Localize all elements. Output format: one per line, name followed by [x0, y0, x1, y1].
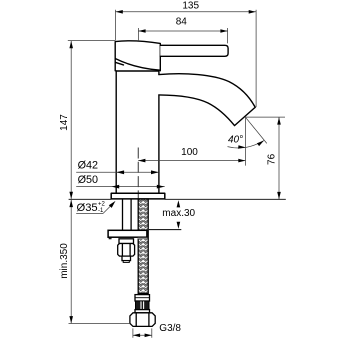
plate shadow band over hose [138, 238, 148, 240]
dim G3/8 line [133, 334, 152, 336]
svg-text:G3/8: G3/8 [159, 323, 181, 334]
svg-text:-1: -1 [98, 208, 104, 214]
arrow 135 left [116, 10, 123, 14]
clamp plate [108, 230, 147, 237]
svg-text:+2: +2 [98, 202, 106, 208]
arrow 40deg at leg [257, 141, 264, 147]
body barrel right wall lower [158, 95, 160, 193]
arrow O50 left [111, 185, 119, 189]
G3/8 hex nut [130, 313, 155, 327]
arrow O50 right [157, 185, 165, 189]
clamp plate lip [109, 237, 111, 239]
dim 84 right extension [227, 28, 229, 43]
centerline of body [137, 148, 139, 199]
svg-text:40°: 40° [228, 135, 243, 146]
svg-text:max.30: max.30 [162, 208, 195, 219]
stud tip [123, 261, 129, 263]
body barrel right wall upper [158, 71, 160, 75]
dim 135 right extension [255, 10, 257, 107]
dim Oslash35 leader [103, 203, 114, 214]
deck top line right [165, 198, 286, 200]
stud end [122, 256, 131, 261]
sub-deck parts [108, 199, 155, 326]
G3/8 nut facets [136, 313, 149, 326]
lever handle [160, 45, 228, 56]
arrow 100 left [138, 159, 145, 163]
40 deg arc [228, 141, 264, 148]
head small step line [115, 62, 123, 65]
svg-text:100: 100 [181, 147, 198, 158]
arrow 147 bottom [69, 192, 73, 199]
svg-text:135: 135 [182, 0, 199, 11]
arrow G38 left [133, 334, 140, 338]
arrow min350 top [69, 200, 73, 207]
deck top line left [69, 198, 112, 200]
deck / mounting surface [69, 199, 286, 229]
arrow 135 right [249, 10, 256, 14]
arrow min350 bottom [69, 316, 73, 323]
dim min.350 line [70, 200, 72, 323]
arrow max30 down [177, 222, 181, 229]
deck bottom line right [149, 229, 181, 231]
dim min.350 bottom extension [69, 323, 131, 325]
dim 135 left extension [114, 10, 116, 41]
body barrel left wall [115, 71, 117, 193]
dim 100 right extension [245, 117, 247, 165]
dim 84 line [138, 30, 227, 32]
dim 147 line [70, 41, 72, 199]
svg-text:147: 147 [59, 114, 70, 131]
hose lower band [135, 310, 150, 313]
hex nut facets [122, 244, 130, 256]
40 deg leg line [246, 117, 267, 143]
arrow O42 left [116, 170, 124, 174]
spout tip horizontal extension [246, 116, 286, 118]
washer [119, 239, 134, 244]
hose collar line [135, 297, 150, 299]
arrow max30 up [177, 200, 181, 207]
hex nut on stud [118, 244, 135, 257]
base flange [111, 193, 165, 199]
arrow 147 top [69, 41, 73, 48]
dim G3/8 ext lines [133, 328, 152, 337]
crimp white stripes [141, 301, 144, 309]
hose crimp section [136, 301, 150, 310]
dim Oslash42 line [76, 171, 159, 173]
dim 76 line [278, 117, 280, 199]
dim 84 left extension [137, 28, 139, 40]
arrow G38 right [145, 334, 152, 338]
svg-text:Ø50: Ø50 [78, 174, 98, 186]
arrow 76 bottom [277, 192, 281, 199]
head scoop curve [115, 59, 160, 71]
svg-text:76: 76 [266, 153, 277, 165]
svg-text:Ø35: Ø35 [77, 202, 98, 214]
arrow 100 right [238, 159, 245, 163]
dim 135 line [116, 11, 256, 13]
arrow 84 left [138, 29, 145, 33]
body barrel top joint [116, 70, 159, 72]
dim 147 top extension [68, 40, 115, 42]
dim 100 line [138, 160, 245, 162]
faucet head cap [115, 41, 160, 71]
arrow 40deg at vertical [238, 145, 245, 149]
svg-text:min.350: min.350 [59, 243, 70, 279]
arrow 84 right [220, 29, 227, 33]
arrow O35 leader [109, 201, 116, 208]
braided hose [138, 199, 148, 294]
dim Oslash50 line [76, 186, 165, 188]
svg-text:84: 84 [176, 16, 188, 27]
arrow 76 top [277, 117, 281, 124]
spout [159, 74, 255, 126]
threaded shank tube [123, 199, 132, 230]
hose collar [135, 295, 150, 301]
svg-text:Ø42: Ø42 [78, 160, 98, 172]
dim Oslash35 underline [76, 213, 103, 215]
arrow O42 right [151, 170, 159, 174]
